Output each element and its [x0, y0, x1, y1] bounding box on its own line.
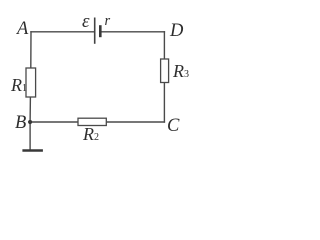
label R2 — [83, 125, 99, 143]
label R1 — [11, 76, 27, 94]
resistor R2 box — [78, 118, 106, 125]
wire R1 to B — [29, 97, 31, 122]
resistor R3 box — [161, 59, 169, 83]
label R3 — [173, 62, 189, 80]
label r (internal resistance) — [105, 14, 111, 29]
wire battery to D (top) — [101, 31, 164, 33]
wire A to battery (top) — [31, 31, 94, 33]
node A — [17, 20, 28, 39]
wire R3 to C — [163, 83, 165, 123]
node D — [170, 22, 183, 41]
ground bar — [22, 149, 43, 151]
battery short thick plate (-) — [99, 25, 102, 37]
node C — [167, 117, 179, 136]
battery long plate (+) — [94, 18, 96, 44]
wire B down to ground — [29, 122, 31, 150]
wire B to R2 (bottom) — [30, 121, 78, 123]
wire D down to R3 — [163, 32, 165, 59]
label epsilon (emf) — [82, 12, 90, 31]
wire A down to R1 — [30, 32, 32, 68]
node B — [15, 114, 26, 133]
resistor R1 box — [26, 68, 36, 97]
wire R2 to C (bottom) — [106, 121, 164, 123]
junction dot at node B — [28, 120, 32, 124]
